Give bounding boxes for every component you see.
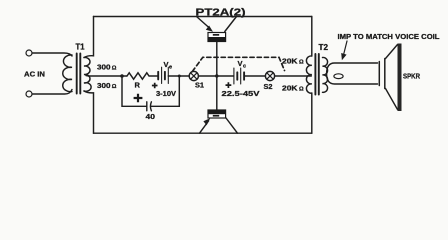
svg-text:T2: T2 — [319, 43, 329, 52]
svg-text:V: V — [164, 60, 169, 69]
svg-text:AC IN: AC IN — [24, 70, 45, 79]
svg-text:300: 300 — [97, 62, 111, 71]
svg-text:300: 300 — [97, 81, 111, 90]
svg-text:c: c — [243, 64, 246, 70]
svg-text:R: R — [135, 80, 141, 89]
svg-text:e: e — [169, 64, 172, 70]
svg-text:SPKR: SPKR — [403, 72, 420, 81]
svg-text:IMP TO MATCH VOICE COIL: IMP TO MATCH VOICE COIL — [338, 32, 441, 41]
svg-text:T1: T1 — [76, 42, 86, 51]
svg-text:Ω: Ω — [112, 84, 117, 90]
svg-text:S2: S2 — [264, 84, 273, 91]
svg-text:Ω: Ω — [299, 87, 304, 93]
svg-text:Ω: Ω — [299, 60, 304, 66]
svg-text:Ω: Ω — [112, 65, 117, 71]
svg-text:20K: 20K — [282, 84, 298, 93]
svg-text:V: V — [238, 59, 243, 68]
svg-text:3-10V: 3-10V — [156, 91, 176, 98]
svg-text:40: 40 — [146, 112, 156, 121]
svg-text:PT2A(2): PT2A(2) — [196, 7, 246, 18]
svg-text:20K: 20K — [282, 57, 298, 66]
svg-text:S1: S1 — [195, 83, 204, 90]
svg-text:22.5-45V: 22.5-45V — [222, 89, 260, 98]
